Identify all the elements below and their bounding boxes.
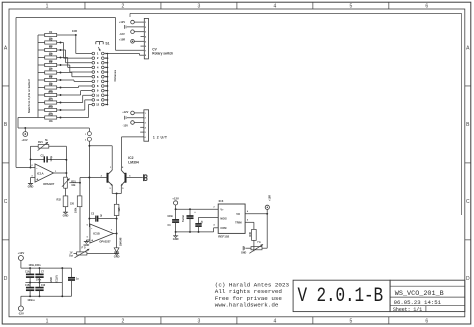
- wire trimmer right to ground rail: [87, 253, 117, 255]
- op-amp IC1A OPA2227: [35, 164, 54, 182]
- svg-text:D: D: [4, 276, 8, 282]
- wire ladder tap 9 to switch: [60, 94, 62, 96]
- wire C3 node to inverting input: [88, 219, 90, 227]
- svg-text:IC2: IC2: [128, 156, 133, 160]
- pin stub 5 of J2: [140, 131, 144, 133]
- svg-text:R36: R36: [249, 231, 252, 236]
- resistor R9 octave ladder (10k 0,1%): [45, 86, 57, 89]
- wire leads of R12: [38, 109, 45, 111]
- transistor IC2 right half LM394: [125, 173, 127, 183]
- svg-text:Rotary switch: Rotary switch: [152, 52, 173, 56]
- wire to +10R port: [266, 209, 268, 213]
- power pin +10R of J1: [131, 40, 135, 44]
- svg-text:Oct: Oct: [69, 255, 73, 258]
- resistor R32 divider to ground: [63, 196, 68, 207]
- wire VO output: [245, 213, 267, 215]
- wire vertical drop to CV connector: [115, 18, 117, 51]
- title block version box: [293, 280, 390, 311]
- svg-text:6: 6: [425, 319, 428, 325]
- power pin -12V of J2: [131, 121, 135, 125]
- connector J2 block: [144, 110, 149, 141]
- rotary switch S1 position 12 contacts: [92, 103, 95, 106]
- svg-text:Match to 0,1% or better!: Match to 0,1% or better!: [27, 79, 31, 113]
- resistor R10 octave ladder (10k 0,1%): [45, 93, 57, 96]
- wire series loop R3-R4: [37, 43, 39, 51]
- wire base of right transistor to test point: [126, 177, 143, 179]
- rotary switch S1 position 3 contacts: [92, 61, 95, 64]
- svg-text:2: 2: [122, 319, 125, 325]
- svg-text:11: 11: [96, 98, 99, 102]
- power port -12V bottom left: [18, 306, 23, 311]
- wire leads of R2: [38, 34, 45, 36]
- wire RV2 bottom to R31 divider: [65, 188, 67, 196]
- svg-text:+12V: +12V: [172, 196, 179, 200]
- power pin -12V of J1: [131, 30, 135, 34]
- wire noise pin: [199, 216, 219, 218]
- ground pin of J1: [127, 26, 144, 28]
- svg-text:S1: S1: [105, 42, 109, 46]
- svg-text:LM394: LM394: [128, 161, 139, 165]
- svg-text:IC1A: IC1A: [37, 171, 44, 175]
- wire stub joining connector area: [129, 13, 131, 17]
- rotary switch S1 position 9 contacts: [92, 89, 95, 92]
- connector J1 CV rotary switch block: [144, 18, 148, 59]
- svg-text:+10R: +10R: [119, 38, 125, 42]
- wire J2 pin6 to expo transistor collector: [122, 136, 144, 138]
- svg-text:100n: 100n: [167, 215, 173, 218]
- svg-text:-: -: [36, 166, 37, 170]
- svg-text:IC1B: IC1B: [93, 232, 100, 236]
- svg-text:R32: R32: [57, 198, 62, 201]
- svg-text:www.haraldswerk.de: www.haraldswerk.de: [215, 302, 279, 309]
- wire series loop R4-R5: [37, 50, 39, 58]
- wire series loop R7-R8: [37, 73, 39, 81]
- wire RV2 wiper to summing column: [69, 182, 80, 184]
- svg-text:R13: R13: [49, 113, 54, 116]
- svg-text:-12V: -12V: [123, 124, 129, 128]
- resistor R7 octave ladder (10k 0,1%): [45, 71, 57, 74]
- svg-text:GND: GND: [241, 252, 247, 255]
- resistor R4 octave ladder (10k 0,1%): [45, 48, 57, 51]
- wire top horizontal run: [16, 17, 116, 19]
- svg-text:TRIM: TRIM: [235, 221, 241, 225]
- wire trim pot right to VO node: [262, 247, 267, 249]
- wire leads of R8: [38, 79, 45, 81]
- wire series loop R11-R12: [37, 103, 39, 111]
- wire emitters to R34: [116, 194, 118, 205]
- ground at IC1B non-inverting input: [84, 241, 89, 243]
- wire decoupling top rail: [21, 267, 72, 269]
- svg-text:R11: R11: [49, 98, 54, 101]
- svg-text:+10V: +10V: [21, 138, 27, 142]
- svg-text:1: 1: [46, 4, 49, 10]
- wire feedback vertical: [65, 146, 67, 177]
- svg-text:06.05.23 14:51: 06.05.23 14:51: [394, 299, 442, 306]
- capacitor C1B decoupling: [29, 283, 31, 288]
- ground below C4: [173, 235, 178, 237]
- wire net from octave switch buffer: left vertical run to IC1A inverting input: [15, 18, 17, 168]
- svg-text:+10R: +10R: [268, 195, 271, 201]
- wire trim pot left to ground: [245, 247, 251, 249]
- ground below diode: [114, 253, 119, 255]
- wire decoupling mid rail: [25, 282, 62, 284]
- wire switch common to CV connector: [108, 53, 140, 55]
- rotary switch S1 position 7 contacts: [92, 80, 95, 83]
- wire ladder tap 10 to switch: [60, 102, 62, 104]
- wire base column down: [88, 146, 90, 178]
- wire into CV connector pin: [116, 49, 145, 51]
- svg-text:5: 5: [349, 4, 352, 10]
- wire left emitter down: [111, 185, 113, 193]
- rotary switch S1 position 4 contacts: [92, 66, 95, 69]
- ground pin of J2: [127, 117, 144, 119]
- pin stub 4 of J1: [141, 36, 145, 38]
- ground below R32: [63, 211, 68, 213]
- wire base of left transistor: [80, 177, 108, 179]
- svg-text:COM: COM: [220, 226, 226, 230]
- wire non-inverting input to ground: [31, 177, 36, 179]
- svg-text:C: C: [4, 199, 8, 205]
- svg-text:100n,100n: 100n,100n: [28, 264, 41, 267]
- wire leads of R5: [38, 57, 45, 59]
- power pin +12V of J1: [131, 20, 135, 24]
- svg-text:+: +: [36, 178, 38, 182]
- capacitor C13 noise filter: [198, 217, 200, 224]
- svg-text:Tantal: Tantal: [182, 215, 185, 222]
- svg-text:+12V: +12V: [122, 110, 128, 114]
- capacitor C4 100n: [175, 209, 177, 220]
- svg-text:4: 4: [273, 319, 276, 325]
- wire base node down to integrator cap node: [88, 178, 90, 219]
- wire leads of R13: [18, 117, 45, 119]
- svg-text:10: 10: [96, 93, 100, 97]
- svg-text:OPA2227: OPA2227: [99, 240, 111, 244]
- svg-text:10k: 10k: [71, 184, 76, 187]
- wire R36 to trim pot wiper: [253, 240, 255, 251]
- wire TRIM pin: [245, 221, 254, 223]
- svg-text:GND: GND: [114, 255, 120, 259]
- wire leads of R3: [38, 42, 45, 44]
- svg-text:IC3: IC3: [219, 199, 224, 203]
- wire ladder tap 6 to switch: [60, 72, 62, 74]
- wire output down to clamp diode: [116, 234, 118, 248]
- rotary switch S1 position 1 contacts: [92, 52, 95, 55]
- capacitor C10 decoupling: [39, 283, 41, 288]
- svg-text:RV1: RV1: [38, 141, 43, 144]
- svg-text:C1A: C1A: [25, 271, 30, 274]
- svg-text:3: 3: [198, 319, 201, 325]
- op-amp IC1B OPA2227: [90, 224, 114, 243]
- svg-text:REF102: REF102: [218, 235, 229, 239]
- svg-text:5: 5: [349, 319, 352, 325]
- wire series loop R12-R13: [37, 110, 39, 118]
- wire series loop R5-R6: [37, 58, 39, 66]
- capacitor C3 integrator: [95, 216, 97, 222]
- svg-text:V+: V+: [220, 208, 224, 212]
- wire R32 to ground: [65, 207, 67, 213]
- svg-text:GND: GND: [63, 213, 69, 217]
- wire right-edge vertical run: [461, 13, 463, 215]
- capacitor C7 decoupling: [39, 268, 41, 274]
- svg-text:6: 6: [425, 4, 428, 10]
- power port +10R: [265, 205, 269, 209]
- wire leads of R11: [38, 102, 45, 104]
- svg-text:1N4148: 1N4148: [120, 237, 123, 246]
- svg-text:100p: 100p: [50, 155, 53, 161]
- svg-text:12: 12: [96, 103, 100, 107]
- wire summing column down to FM trimmer: [79, 178, 81, 196]
- capacitor C12 tantal: [189, 209, 191, 216]
- resistor R36 trim: [252, 229, 257, 240]
- wire ladder tap 5 to switch: [60, 64, 62, 66]
- resistor R3 octave ladder (10k 0,1%): [45, 41, 57, 44]
- svg-text:GND: GND: [50, 277, 53, 283]
- svg-text:C: C: [466, 199, 470, 205]
- svg-text:-: -: [91, 226, 92, 230]
- wire diode to ground rail: [116, 252, 118, 253]
- wire leads of R7: [38, 72, 45, 74]
- resistor R2 octave ladder (10k 0,1%): [45, 33, 57, 36]
- wire 1V/Oct feed: [18, 127, 89, 129]
- resistor R13 octave ladder (10k 0,1%): [45, 116, 57, 119]
- wire ladder tap 4 to switch: [60, 57, 62, 59]
- rotary switch S1 position 11 contacts: [92, 99, 95, 102]
- wire ladder tap 3 to switch: [60, 49, 62, 51]
- wire common bus of S1: [107, 54, 109, 105]
- svg-text:+12V: +12V: [18, 251, 25, 255]
- svg-text:100n: 100n: [36, 279, 42, 282]
- wire net stub to trimmer left: [74, 253, 77, 255]
- svg-text:+: +: [91, 239, 93, 243]
- wire ladder bottom to +10V node: [17, 118, 19, 129]
- svg-text:F 5: F 5: [82, 246, 86, 250]
- IC REF102 body: [218, 204, 245, 233]
- svg-text:Octaves: Octaves: [113, 69, 117, 81]
- wire leads of R6: [38, 64, 45, 66]
- svg-text:V 2.0.1-B: V 2.0.1-B: [297, 285, 383, 307]
- wire series loop R10-R11: [37, 95, 39, 103]
- wire right emitter down: [120, 185, 122, 193]
- wire ladder tap 11 to switch: [60, 109, 62, 111]
- wire RV1 to feedback node: [49, 145, 67, 147]
- wire series loop R6-R7: [37, 65, 39, 73]
- wire ladder tap 2 to switch: [60, 42, 62, 44]
- svg-text:WS_VCO_201_B: WS_VCO_201_B: [395, 290, 444, 298]
- wire long top rail (net 10R distribution): [130, 12, 462, 14]
- ground left of trim pot: [242, 246, 244, 250]
- wire ladder tap 1 to switch: [75, 34, 77, 36]
- svg-text:10R: 10R: [72, 29, 77, 33]
- svg-text:3: 3: [198, 4, 201, 10]
- wire IC1B output node: [113, 233, 116, 235]
- wire non-inverting input of IC1B to ground: [86, 239, 90, 241]
- svg-text:2: 2: [122, 4, 125, 10]
- wire collector branch: [89, 145, 112, 147]
- resistor R6 octave ladder (10k 0,1%): [45, 63, 57, 66]
- svg-text:VO: VO: [236, 212, 240, 216]
- rotary switch S1 position 8 contacts: [92, 85, 95, 88]
- wire +12V to top rail: [20, 261, 22, 269]
- resistor R12 octave ladder (10k 0,1%): [45, 108, 57, 111]
- svg-text:-12V: -12V: [119, 32, 125, 36]
- trimmer RV1 scale: [38, 145, 49, 149]
- capacitor C2 100p in IC1A feedback: [43, 156, 45, 162]
- pin stub 6 of J1: [141, 45, 145, 47]
- capacitor C14 decoupling: [29, 268, 31, 274]
- resistor R34 emitter: [114, 204, 119, 215]
- row ticks left/right: [2, 85, 9, 87]
- svg-text:220: 220: [70, 203, 75, 206]
- wire R34 to IC1B output node: [116, 216, 118, 234]
- rotary switch S1 position 10 contacts: [92, 94, 95, 97]
- wire ladder tap 7 to switch: [60, 79, 62, 81]
- wire IC1 supply stub: [61, 268, 63, 296]
- trimmer R35 scale adjust: [77, 252, 87, 255]
- svg-text:D: D: [466, 276, 470, 282]
- trimmer R37 10R adjust: [251, 247, 262, 250]
- resistor R33 summing: [77, 196, 82, 207]
- wire bottom rail to ground: [175, 232, 177, 236]
- wire decoupling bottom rail: [21, 295, 72, 297]
- svg-text:? k: ? k: [257, 240, 261, 244]
- svg-text:GND: GND: [28, 185, 34, 189]
- wire feedback cap row: [31, 158, 45, 160]
- wire trimmer feed row: [31, 145, 39, 147]
- title block info box: [390, 280, 465, 311]
- rotary switch S1 position 6 contacts: [92, 75, 95, 78]
- svg-text:10k: 10k: [49, 120, 54, 123]
- svg-text:R10: R10: [49, 91, 54, 94]
- wire +12V to REF rail: [175, 205, 177, 209]
- svg-text:1: 1: [46, 319, 49, 325]
- wire leads of R10: [38, 94, 45, 96]
- wire feedback column to inverting input: [30, 146, 32, 167]
- rotary switch S1 position 5 contacts: [92, 71, 95, 74]
- svg-text:1u: 1u: [76, 277, 79, 280]
- wire leads of R9: [38, 87, 45, 89]
- capacitor C11 bulk: [71, 268, 73, 278]
- wire leads of R4: [38, 49, 45, 51]
- wire ladder tap 8 to switch: [60, 87, 62, 89]
- wire series loop R2-R3: [37, 35, 39, 43]
- wire IC1A output: [54, 172, 67, 174]
- ground at IC1A non-inverting input: [28, 183, 33, 185]
- resistor R5 octave ladder (10k 0,1%): [45, 56, 57, 59]
- wire ladder tap 12 to switch: [60, 117, 62, 119]
- pin stub 4 of J2: [140, 126, 144, 128]
- svg-text:C10: C10: [41, 285, 46, 287]
- svg-text:R12: R12: [49, 106, 54, 109]
- wire to -12V port: [20, 296, 22, 306]
- svg-text:1 2 U/T: 1 2 U/T: [153, 135, 168, 139]
- transistor IC2 left half LM394: [107, 173, 109, 183]
- svg-text:NOIS: NOIS: [220, 217, 227, 221]
- column ticks top/bottom: [84, 2, 86, 9]
- svg-text:-12V: -12V: [18, 312, 24, 316]
- svg-text:IC1(V): IC1(V): [56, 275, 59, 282]
- resistor R11 octave ladder (10k 0,1%): [45, 101, 57, 104]
- svg-text:4: 4: [273, 4, 276, 10]
- wire REF top rail to V+ pin: [176, 208, 219, 210]
- power symbol +10V at ladder foot: [24, 128, 26, 132]
- test point symbol at right base: [143, 174, 145, 181]
- svg-text:GND: GND: [173, 237, 179, 241]
- svg-text:+12V: +12V: [119, 20, 125, 24]
- svg-text:C1B: C1B: [25, 285, 30, 287]
- rotary switch S1 position 2 contacts: [92, 57, 95, 60]
- wire REF bottom rail to COM pin: [176, 231, 214, 233]
- diode D1 1N4148 clamp: [114, 248, 119, 252]
- trimmer RV2 octave span: [64, 177, 68, 188]
- wire series loop R9-R10: [37, 88, 39, 96]
- power pin +12V of J2: [131, 111, 135, 115]
- svg-text:100k: 100k: [75, 207, 78, 213]
- wire series loop R8-R9: [37, 80, 39, 88]
- svg-text:OPA2227: OPA2227: [43, 182, 55, 186]
- rotary switch S1 wiper arrow symbol: [95, 42, 97, 45]
- svg-text:100nu: 100nu: [27, 299, 35, 302]
- svg-text:1k5: 1k5: [118, 207, 121, 212]
- resistor R8 octave ladder (10k 0,1%): [45, 78, 57, 81]
- wire inverting input of IC1A: [16, 167, 35, 169]
- connector P3 1V/Oct two-pin symbol: [87, 132, 91, 136]
- svg-text:Sheet: 1/1: Sheet: 1/1: [393, 307, 422, 313]
